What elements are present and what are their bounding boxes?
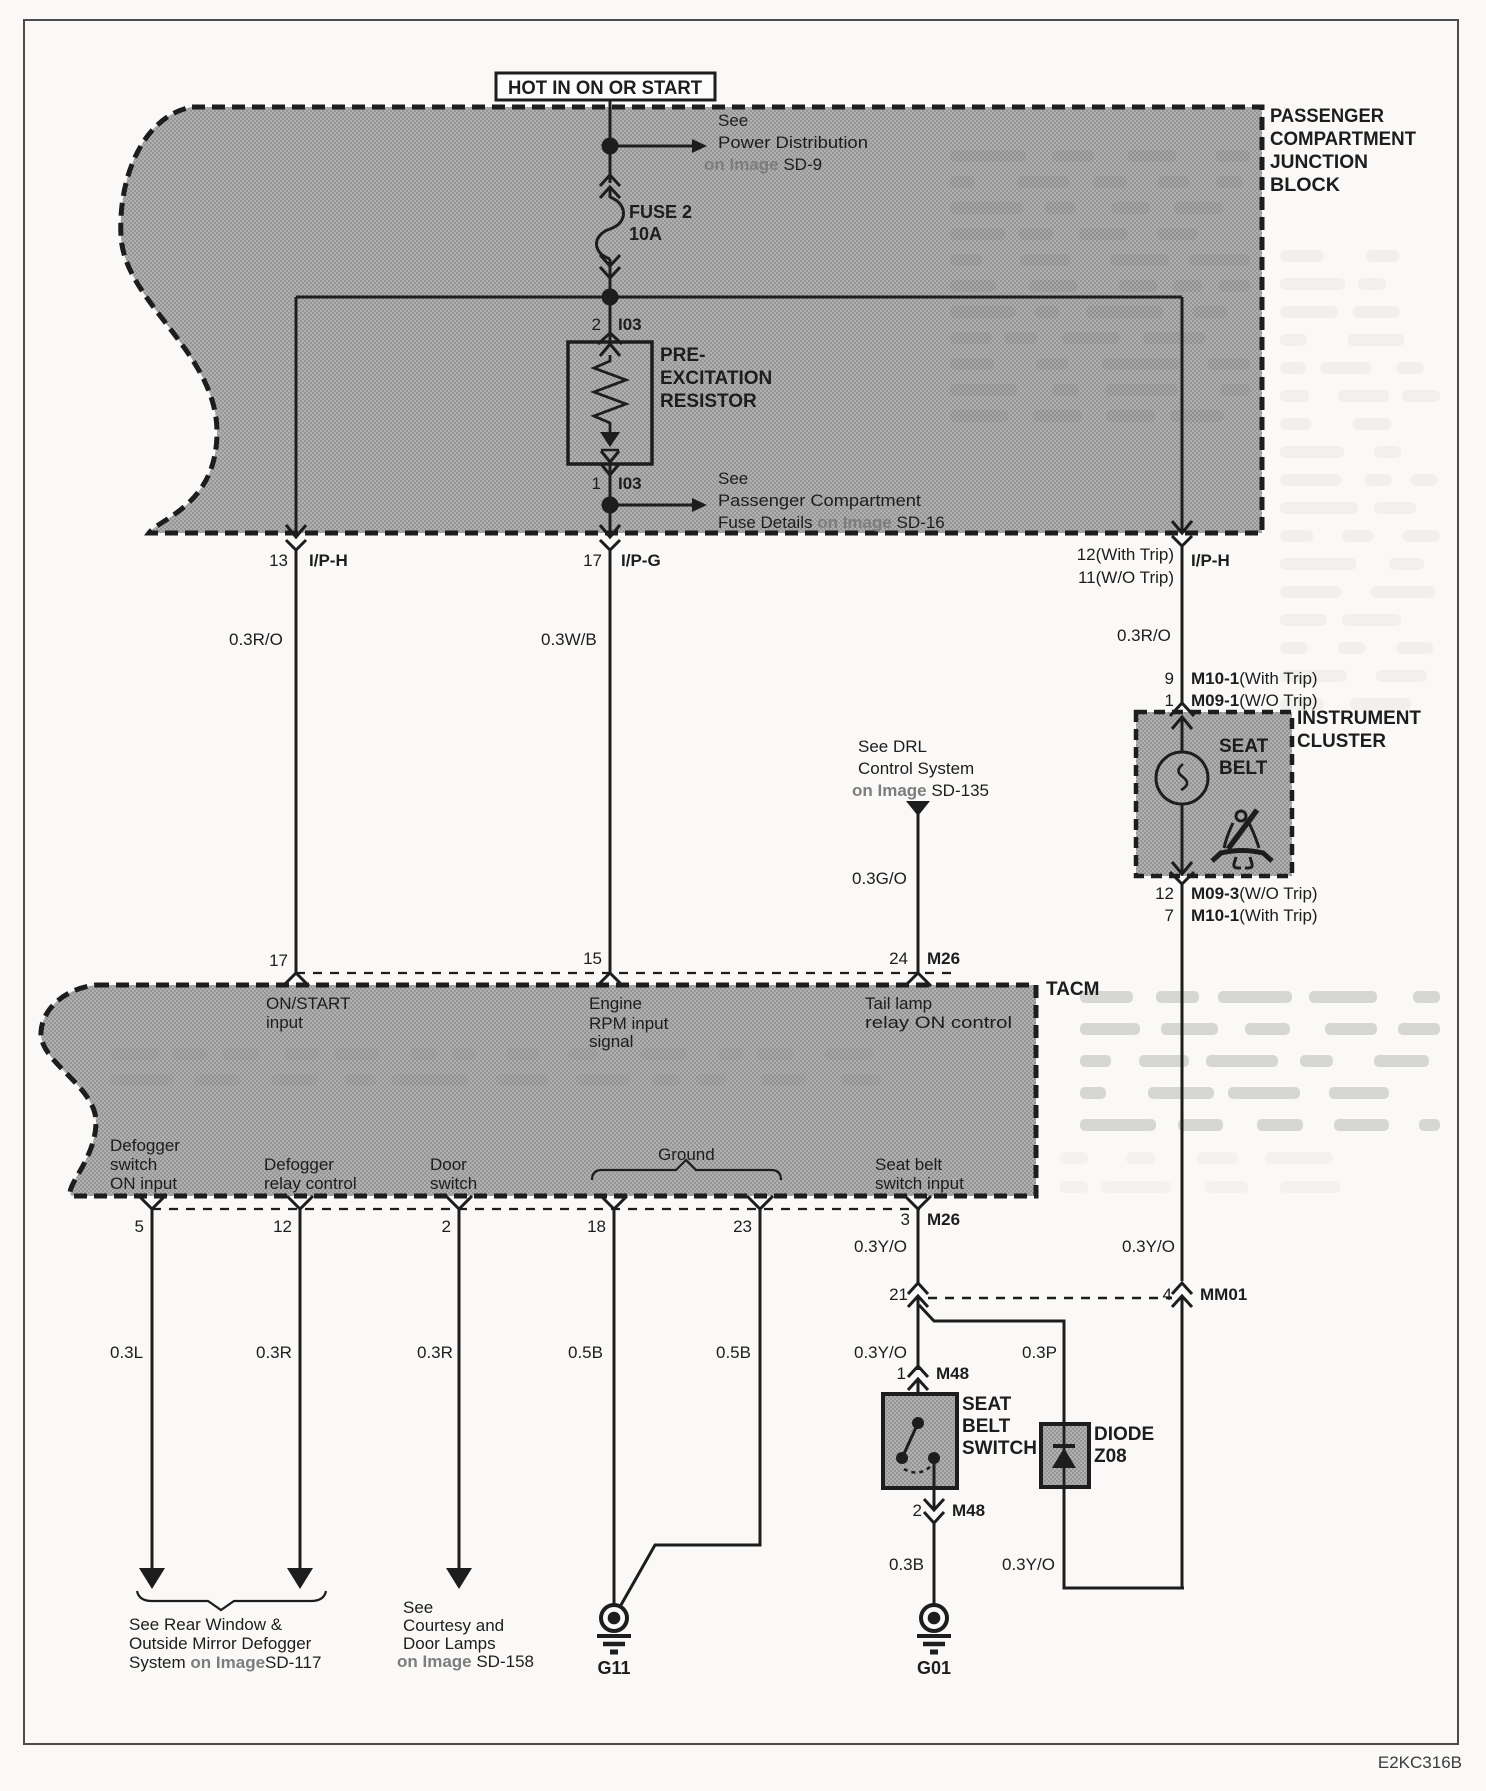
connector 2 M48 (inline) <box>913 1499 986 1523</box>
connector row (thin dashed) at TACM top <box>296 972 955 974</box>
wire 0.3L : pin 5 to defogger system <box>151 1209 154 1570</box>
svg-text:1: 1 <box>1165 691 1174 710</box>
wire 0.3Y/O : connector 21 down to 1 M48 <box>917 1296 920 1370</box>
svg-text:Engine: Engine <box>589 994 642 1013</box>
svg-text:M10-1(With Trip): M10-1(With Trip) <box>1191 669 1318 688</box>
svg-text:ON/START: ON/START <box>266 994 350 1013</box>
svg-text:relay ON control: relay ON control <box>865 1013 1012 1032</box>
svg-text:ON input: ON input <box>110 1174 177 1193</box>
svg-text:JUNCTION: JUNCTION <box>1270 152 1368 173</box>
svg-text:21: 21 <box>889 1285 908 1304</box>
connector chevron 9/1 at cluster top <box>1170 703 1194 729</box>
wire 0.3R : pin 12 to defogger relay <box>299 1209 302 1570</box>
svg-text:Door Lamps: Door Lamps <box>403 1634 496 1653</box>
svg-text:5: 5 <box>135 1217 144 1236</box>
svg-text:Passenger Compartment: Passenger Compartment <box>718 491 921 510</box>
ground G01 <box>917 1605 951 1678</box>
seat belt icon <box>1212 810 1272 868</box>
reference arrow: See Passenger Compartment Fuse Details on Image SD-16 <box>610 469 945 532</box>
node: power distribution junction <box>602 138 619 155</box>
connector TACM pin 5 <box>135 1196 165 1236</box>
indicator lamp SEAT BELT <box>1156 736 1269 804</box>
svg-text:on Image SD-9: on Image SD-9 <box>704 155 822 174</box>
svg-text:See: See <box>403 1598 433 1617</box>
svg-text:EXCITATION: EXCITATION <box>660 368 772 389</box>
svg-text:Courtesy and: Courtesy and <box>403 1616 504 1635</box>
TACM label: ON/START input <box>266 994 350 1032</box>
svg-text:E2KC316B: E2KC316B <box>1378 1753 1462 1772</box>
svg-text:15: 15 <box>583 949 602 968</box>
wire: bus to resistor pin 2 <box>609 297 612 344</box>
connector TACM pin 17 (ON/START input) <box>269 951 309 986</box>
TACM label: Defogger relay control <box>264 1155 357 1193</box>
power label: HOT IN ON OR START <box>496 73 715 100</box>
TACM label: Tail lamp relay ON control <box>865 994 1012 1032</box>
connector pin 1 I03 <box>592 464 642 505</box>
svg-text:0.3R/O: 0.3R/O <box>1117 626 1171 645</box>
connector TACM pin 23 <box>733 1196 773 1236</box>
TACM label: Ground (with brace) <box>592 1145 781 1180</box>
note: See Rear Window & Outside Mirror Defogger System on Image SD-117 <box>129 1615 321 1672</box>
svg-text:12: 12 <box>1155 884 1174 903</box>
svg-text:RESISTOR: RESISTOR <box>660 391 757 412</box>
brace under defogger arrows <box>137 1591 326 1610</box>
svg-text:M09-3(W/O Trip): M09-3(W/O Trip) <box>1191 884 1318 903</box>
svg-text:0.3Y/O: 0.3Y/O <box>854 1343 907 1362</box>
svg-text:M48: M48 <box>952 1501 985 1520</box>
connector TACM pin 3 M26 <box>901 1196 961 1229</box>
TACM label: Defogger switch ON input <box>110 1136 180 1193</box>
svg-text:12(With Trip): 12(With Trip) <box>1077 545 1174 564</box>
svg-text:24: 24 <box>889 949 908 968</box>
svg-text:I/P-G: I/P-G <box>621 551 661 570</box>
wire 0.3B : 2 M48 down to ground G01 <box>933 1523 936 1604</box>
svg-text:10A: 10A <box>629 224 662 244</box>
TACM module box <box>41 979 1100 1196</box>
wire 0.3R : pin 2 to door switch <box>458 1209 461 1570</box>
svg-text:M26: M26 <box>927 1210 960 1229</box>
svg-text:0.3Y/O: 0.3Y/O <box>1122 1237 1175 1256</box>
connector 9 M10-1(With Trip) / 1 M09-1(W/O Trip) <box>1165 669 1318 710</box>
svg-text:12: 12 <box>273 1217 292 1236</box>
wire: MM01 leg down <box>1181 1296 1184 1588</box>
svg-text:18: 18 <box>587 1217 606 1236</box>
wire: pin1 to block edge <box>609 505 612 535</box>
svg-text:0.3G/O: 0.3G/O <box>852 869 907 888</box>
connector TACM pin 15 (Engine RPM) <box>583 949 623 986</box>
svg-text:Tail lamp: Tail lamp <box>865 994 932 1013</box>
svg-text:1: 1 <box>897 1364 906 1383</box>
svg-text:2: 2 <box>592 315 601 334</box>
arrow to other system (pin 12) <box>287 1568 313 1589</box>
svg-text:RPM input: RPM input <box>589 1014 669 1033</box>
wire 0.3Y/O : diode to MM01 leg <box>1064 1487 1184 1588</box>
svg-text:0.3W/B: 0.3W/B <box>541 630 597 649</box>
arrow to other system (pin 5) <box>139 1568 165 1589</box>
wire 0.5B : pin 18 to ground G11 <box>613 1209 616 1604</box>
connector TACM pin 12 <box>273 1196 313 1236</box>
switch: SEAT BELT SWITCH <box>883 1394 1037 1488</box>
svg-text:Fuse Details on Image SD-16: Fuse Details on Image SD-16 <box>718 513 945 532</box>
svg-text:Outside Mirror Defogger: Outside Mirror Defogger <box>129 1634 312 1653</box>
svg-text:0.3Y/O: 0.3Y/O <box>1002 1555 1055 1574</box>
svg-text:11(W/O Trip): 11(W/O Trip) <box>1078 568 1174 587</box>
svg-text:See: See <box>718 111 748 130</box>
wire 0.5B : pin 23 joining ground G11 <box>621 1209 760 1605</box>
svg-text:0.5B: 0.5B <box>716 1343 751 1362</box>
svg-text:I/P-H: I/P-H <box>1191 551 1230 570</box>
svg-text:switch: switch <box>110 1155 157 1174</box>
connector 12 M09-3(W/O Trip) / 7 M10-1(With Trip) <box>1155 862 1318 925</box>
svg-text:on Image SD-158: on Image SD-158 <box>397 1652 534 1671</box>
arrow to other system (pin 2) <box>446 1568 472 1589</box>
svg-text:Power Distribution: Power Distribution <box>718 133 868 152</box>
svg-text:0.3R: 0.3R <box>256 1343 292 1362</box>
dashed link between connector 21 and 4 MM01 <box>928 1297 1172 1299</box>
svg-text:23: 23 <box>733 1217 752 1236</box>
connector 4 MM01 (inline) <box>1163 1283 1248 1307</box>
connector 1 M48 (inline) <box>897 1364 970 1390</box>
connector 21 (inline) <box>889 1283 928 1307</box>
TACM label: Door switch <box>430 1155 477 1193</box>
svg-text:17: 17 <box>269 951 288 970</box>
wire: bus right leg down to pin 12/11 <box>1181 297 1184 531</box>
reference: See DRL Control System on Image SD-135 <box>852 737 989 816</box>
junction block: PASSENGER COMPARTMENT JUNCTION BLOCK <box>121 106 1417 533</box>
svg-text:SEAT: SEAT <box>1219 736 1269 757</box>
svg-text:HOT IN ON OR START: HOT IN ON OR START <box>508 78 702 99</box>
svg-text:0.3B: 0.3B <box>889 1555 924 1574</box>
svg-text:9: 9 <box>1165 669 1174 688</box>
wire: internal bus (horizontal) <box>296 296 1182 299</box>
wire 0.3Y/O : TACM pin 3 down to connector 21 <box>917 1209 920 1283</box>
svg-text:M48: M48 <box>936 1364 969 1383</box>
wire: HOT feed down to junction <box>609 100 612 183</box>
svg-text:Defogger: Defogger <box>110 1136 180 1155</box>
wire: 1 M48 into seat belt switch <box>917 1379 920 1424</box>
connector 13 I/P-H (junction block to TACM) <box>269 525 348 570</box>
svg-text:See: See <box>718 469 748 488</box>
svg-text:M10-1(With Trip): M10-1(With Trip) <box>1191 906 1318 925</box>
connector row (thin dashed) at TACM bottom <box>152 1208 920 1210</box>
svg-text:PASSENGER: PASSENGER <box>1270 106 1384 127</box>
svg-text:2: 2 <box>913 1501 922 1520</box>
svg-text:TACM: TACM <box>1046 979 1099 1000</box>
svg-text:I03: I03 <box>618 474 642 493</box>
wire: switch to 2 M48 <box>933 1458 936 1510</box>
svg-text:signal: signal <box>589 1032 633 1051</box>
wire through cluster <box>1181 716 1184 753</box>
svg-text:2: 2 <box>442 1217 451 1236</box>
svg-text:switch input: switch input <box>875 1174 964 1193</box>
wire 0.3W/B : pin17 down to TACM pin 15 <box>609 550 612 973</box>
TACM label: Engine RPM input signal <box>589 994 669 1051</box>
svg-text:13: 13 <box>269 551 288 570</box>
svg-text:input: input <box>266 1013 303 1032</box>
svg-text:Z08: Z08 <box>1094 1446 1127 1467</box>
svg-text:SWITCH: SWITCH <box>962 1438 1037 1459</box>
svg-text:M26: M26 <box>927 949 960 968</box>
svg-text:System on ImageSD-117: System on ImageSD-117 <box>129 1653 321 1672</box>
svg-text:switch: switch <box>430 1174 477 1193</box>
TACM label: Seat belt switch input <box>875 1155 964 1193</box>
svg-text:SEAT: SEAT <box>962 1394 1012 1415</box>
svg-text:Defogger: Defogger <box>264 1155 334 1174</box>
svg-text:17: 17 <box>583 551 602 570</box>
svg-text:relay control: relay control <box>264 1174 357 1193</box>
svg-text:See Rear Window &: See Rear Window & <box>129 1615 283 1634</box>
svg-text:0.3L: 0.3L <box>110 1343 143 1362</box>
note: See Courtesy and Door Lamps on Image SD-158 <box>397 1598 534 1671</box>
svg-text:0.3Y/O: 0.3Y/O <box>854 1237 907 1256</box>
svg-text:Seat belt: Seat belt <box>875 1155 942 1174</box>
svg-text:on Image SD-135: on Image SD-135 <box>852 781 989 800</box>
svg-text:4: 4 <box>1163 1285 1172 1304</box>
svg-text:BELT: BELT <box>962 1416 1011 1437</box>
wire 0.3P : branch from 21 to diode Z08 <box>919 1305 1064 1424</box>
svg-text:Door: Door <box>430 1155 467 1174</box>
svg-text:1: 1 <box>592 474 601 493</box>
svg-text:0.3P: 0.3P <box>1022 1343 1057 1362</box>
connector pin 2 I03 <box>592 315 642 356</box>
instrument cluster module box <box>1136 708 1421 876</box>
svg-text:3: 3 <box>901 1210 910 1229</box>
wire 0.3Y/O : cluster down to connector 4 MM01 <box>1181 884 1184 1281</box>
connector TACM pin 2 <box>442 1196 472 1236</box>
svg-text:0.3R/O: 0.3R/O <box>229 630 283 649</box>
svg-text:I/P-H: I/P-H <box>309 551 348 570</box>
resistor: PRE-EXCITATION RESISTOR <box>568 342 772 464</box>
node: bus junction <box>602 289 619 306</box>
svg-text:0.5B: 0.5B <box>568 1343 603 1362</box>
svg-text:BELT: BELT <box>1219 758 1268 779</box>
fuse FUSE 2 10A <box>597 175 693 297</box>
connector TACM pin 24 M26 (Tail lamp relay) <box>889 949 960 986</box>
svg-text:See DRL: See DRL <box>858 737 927 756</box>
svg-text:G01: G01 <box>917 1658 951 1678</box>
svg-text:DIODE: DIODE <box>1094 1424 1154 1445</box>
diode Z08 <box>1041 1424 1154 1487</box>
svg-text:Control System: Control System <box>858 759 974 778</box>
svg-text:FUSE 2: FUSE 2 <box>629 202 692 222</box>
svg-text:MM01: MM01 <box>1200 1285 1247 1304</box>
svg-text:INSTRUMENT: INSTRUMENT <box>1297 708 1421 729</box>
ground G11 <box>597 1605 631 1678</box>
wire 0.3R/O : pin13 down to TACM pin 17 <box>295 550 298 973</box>
svg-text:7: 7 <box>1165 906 1174 925</box>
svg-text:COMPARTMENT: COMPARTMENT <box>1270 129 1416 150</box>
wire 0.3R/O : pin12/11 down to instrument cluster <box>1181 546 1184 705</box>
svg-text:PRE-: PRE- <box>660 345 705 366</box>
connector TACM pin 18 <box>587 1196 627 1236</box>
svg-text:CLUSTER: CLUSTER <box>1297 731 1386 752</box>
svg-text:I03: I03 <box>618 315 642 334</box>
wire 0.3G/O : DRL to TACM pin 24 <box>917 812 920 973</box>
connector 12(With Trip)/11(W/O Trip) I/P-H <box>1077 521 1230 587</box>
svg-text:BLOCK: BLOCK <box>1270 175 1340 196</box>
wire: bus left leg down to pin 13 <box>295 297 298 535</box>
reference arrow: See Power Distribution on Image SD-9 <box>610 111 868 174</box>
wire: fuse to bus <box>609 271 612 297</box>
node: fuse details junction <box>602 497 619 514</box>
svg-text:G11: G11 <box>597 1658 630 1678</box>
connector 17 I/P-G <box>583 525 661 570</box>
svg-text:0.3R: 0.3R <box>417 1343 453 1362</box>
